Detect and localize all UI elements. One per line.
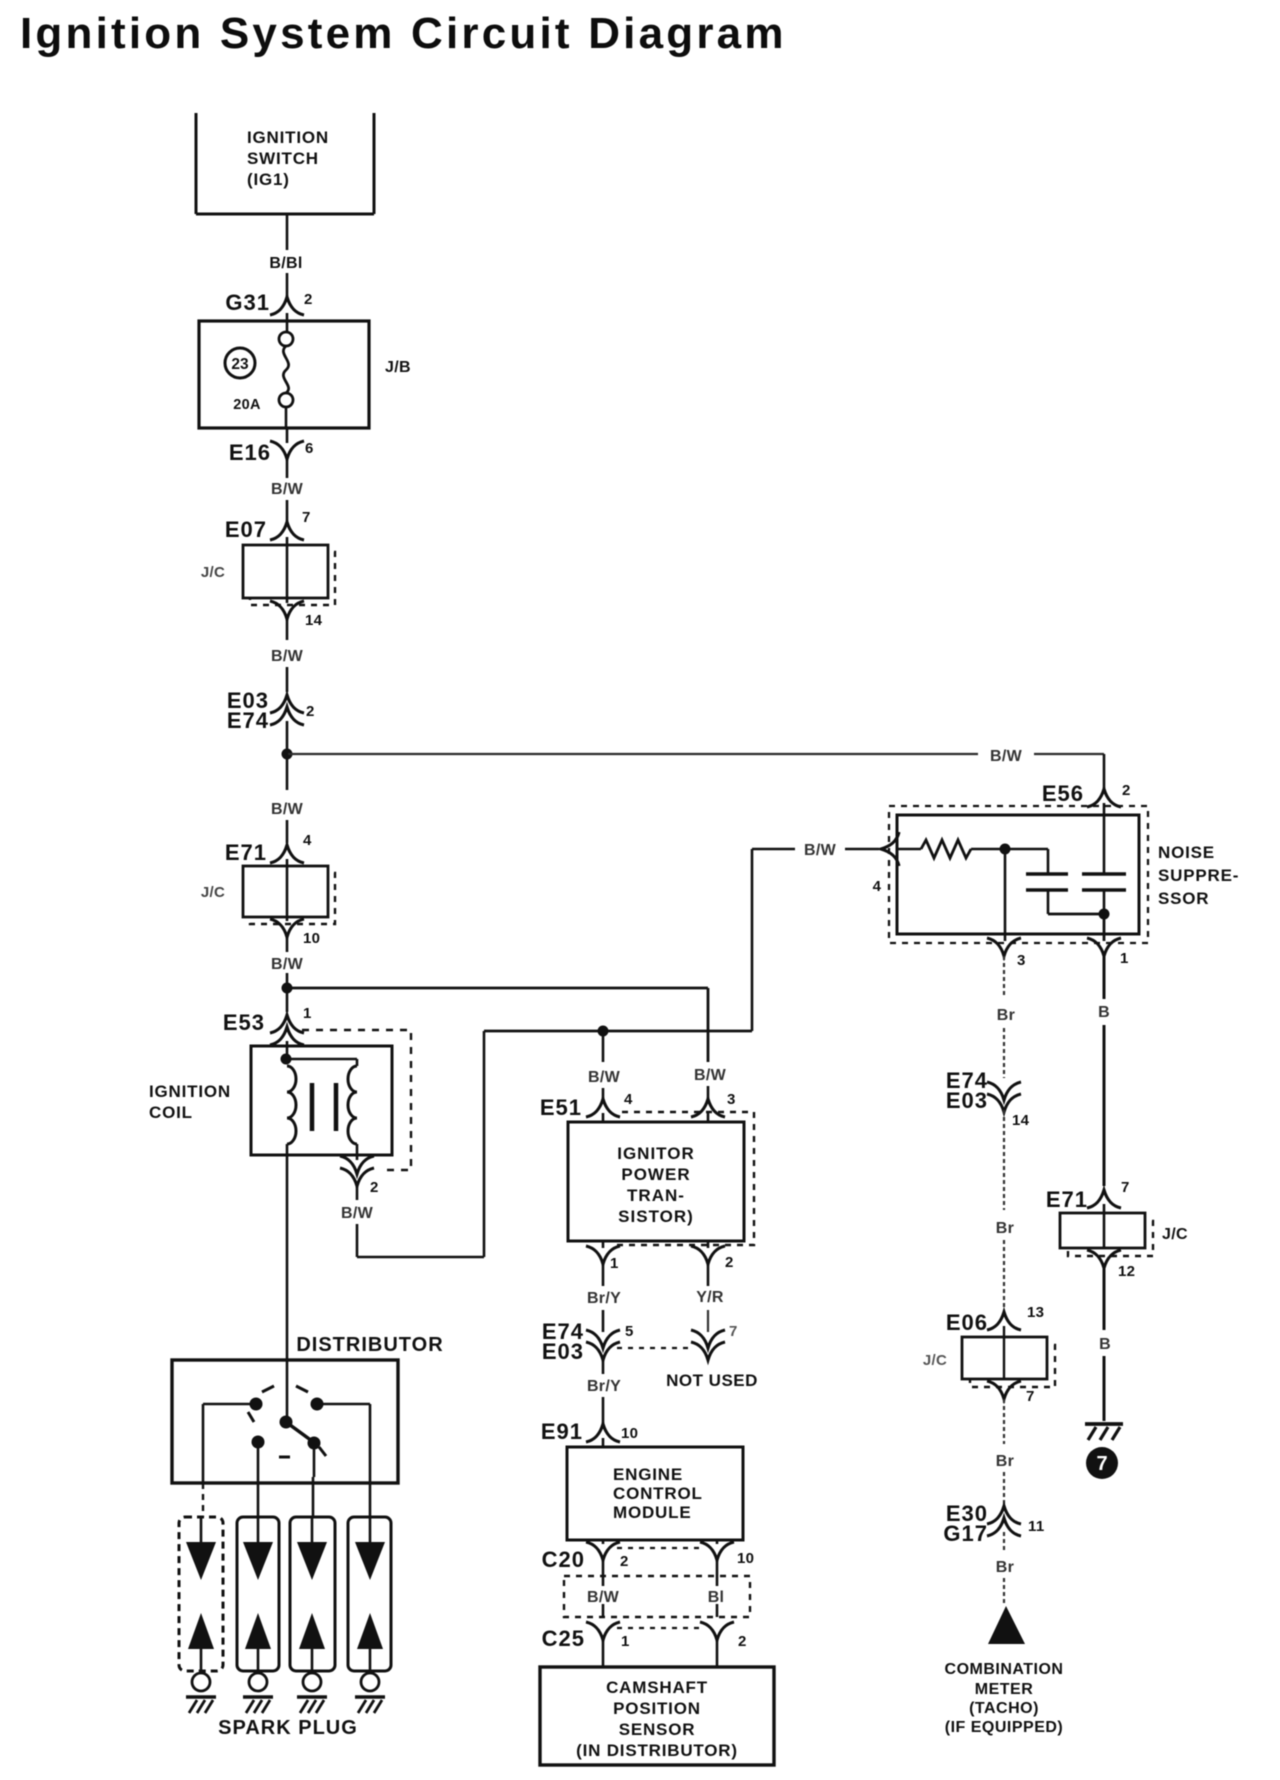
dashed link C20	[617, 1547, 703, 1549]
svg-text:B/W: B/W	[588, 1069, 621, 1086]
connector E07 pin 14	[270, 601, 323, 629]
connector E74/E03 pin 5	[542, 1319, 634, 1364]
wire label B/W	[271, 481, 304, 498]
svg-text:B/W: B/W	[271, 956, 304, 973]
wire (not used leg)	[707, 1310, 709, 1332]
svg-text:B/W: B/W	[990, 748, 1023, 765]
wire label B/Bl	[269, 255, 302, 272]
ignition coil box	[251, 1046, 392, 1155]
wire branch B/W to E56 (long horizontal)	[288, 753, 1104, 755]
node junction to ignitor	[282, 983, 293, 994]
wire pin1 leg	[1103, 914, 1106, 941]
wire	[603, 1560, 717, 1576]
engine control module label	[613, 1465, 703, 1522]
svg-text:(IN DISTRIBUTOR): (IN DISTRIBUTOR)	[576, 1741, 738, 1760]
svg-text:11: 11	[1028, 1518, 1044, 1535]
wire primary to distributor	[286, 1144, 289, 1416]
wire label B	[1094, 1001, 1114, 1021]
svg-text:E56: E56	[1042, 781, 1084, 806]
svg-text:20A: 20A	[233, 397, 261, 413]
svg-text:Br: Br	[996, 1559, 1014, 1576]
svg-text:E71: E71	[225, 840, 267, 865]
wire	[1003, 1028, 1005, 1078]
svg-text:TRAN-: TRAN-	[627, 1186, 685, 1205]
svg-text:2: 2	[306, 703, 315, 720]
wire	[1005, 849, 1048, 874]
spark plug 3	[290, 1517, 335, 1713]
connector C20 pins 2 and 10	[542, 1542, 755, 1572]
spark plug 2	[237, 1517, 279, 1713]
wire through J/C	[286, 537, 289, 598]
wire to E51 pin 4	[602, 1031, 605, 1100]
distributor contact upper-left	[250, 1398, 263, 1411]
distributor contact upper-right	[311, 1398, 324, 1411]
wire label Br/Y	[587, 1290, 621, 1307]
fuse element	[279, 332, 293, 428]
wire coil top link	[286, 1059, 357, 1066]
wire label Br	[996, 1559, 1014, 1576]
svg-text:IGNITION: IGNITION	[247, 128, 329, 147]
svg-text:ENGINE: ENGINE	[613, 1465, 683, 1484]
svg-text:10: 10	[737, 1550, 754, 1567]
dashed link between connectors	[617, 1347, 691, 1349]
connector E71 pin 4	[225, 832, 312, 865]
joint connector J/C box E71	[201, 866, 335, 924]
svg-text:SPARK PLUG: SPARK PLUG	[218, 1717, 358, 1739]
ground spark plug 1	[0, 0, 1, 1]
svg-text:2: 2	[304, 291, 313, 308]
wire	[752, 848, 879, 851]
svg-text:IGNITOR: IGNITOR	[617, 1144, 695, 1163]
svg-text:5: 5	[625, 1323, 634, 1340]
camshaft position sensor label	[576, 1678, 738, 1760]
svg-text:E71: E71	[1046, 1187, 1088, 1212]
svg-text:1: 1	[1120, 950, 1129, 967]
wire distributor to spark plug 3	[313, 1449, 314, 1517]
wire	[286, 313, 289, 332]
ignition coil label	[149, 1082, 231, 1122]
svg-text:SWITCH: SWITCH	[247, 149, 319, 168]
wire	[1003, 1399, 1005, 1444]
connector E06 pin 13	[946, 1304, 1044, 1335]
svg-text:POSITION: POSITION	[613, 1699, 701, 1718]
wire	[1103, 1356, 1106, 1421]
wire through J/C	[1103, 1204, 1106, 1248]
wire	[286, 973, 289, 1012]
svg-text:13: 13	[1027, 1304, 1044, 1321]
svg-text:Br: Br	[996, 1453, 1014, 1470]
combination meter arrow	[988, 1606, 1025, 1644]
wire to E51 pin 3	[707, 1086, 710, 1100]
spark plug 4	[348, 1517, 391, 1713]
svg-text:23: 23	[231, 356, 249, 373]
wire through J/C	[286, 859, 289, 917]
svg-text:J/C: J/C	[201, 884, 225, 901]
joint connector J/C box E07	[201, 545, 335, 605]
wire	[286, 721, 289, 754]
ignitor power transistor box	[568, 1122, 744, 1241]
wire down to E56 pin 2	[1103, 754, 1106, 789]
title	[20, 9, 787, 58]
wire B/W from noise suppressor pin 4	[484, 849, 752, 1031]
wire secondary to pin 2	[356, 1144, 359, 1160]
distributor rotor	[280, 1416, 321, 1450]
wire	[1103, 1025, 1106, 1186]
svg-text:Br/Y: Br/Y	[587, 1378, 621, 1395]
svg-text:G17: G17	[943, 1521, 988, 1546]
svg-text:E07: E07	[225, 517, 267, 542]
capacitor C-right in noise suppressor	[1082, 815, 1126, 914]
svg-text:B/W: B/W	[271, 648, 304, 665]
wire	[286, 428, 289, 478]
ground symbol	[1085, 1424, 1123, 1440]
svg-text:3: 3	[1017, 952, 1026, 969]
connector E51 pin 1	[586, 1246, 620, 1272]
wire	[1003, 1578, 1005, 1606]
noise suppressor dashed box	[889, 806, 1148, 943]
wire distributor to spark plug 4	[317, 1404, 370, 1517]
svg-text:DISTRIBUTOR: DISTRIBUTOR	[296, 1334, 443, 1356]
wire label Bl	[702, 1586, 730, 1606]
svg-text:6: 6	[305, 440, 314, 457]
combination meter label	[945, 1661, 1064, 1736]
svg-text:Br: Br	[997, 1007, 1015, 1024]
svg-text:J/C: J/C	[201, 564, 225, 581]
svg-text:E74: E74	[227, 708, 269, 733]
connector E07 pin 7	[225, 509, 311, 542]
connector G31 pin 2	[225, 290, 312, 315]
dashed link C25	[617, 1627, 703, 1629]
svg-text:1: 1	[610, 1255, 619, 1272]
svg-text:COIL: COIL	[149, 1103, 193, 1122]
svg-text:J/B: J/B	[385, 359, 411, 376]
wire	[286, 667, 289, 692]
svg-text:2: 2	[370, 1179, 379, 1196]
svg-text:2: 2	[620, 1553, 629, 1570]
svg-text:4: 4	[624, 1091, 633, 1108]
svg-text:2: 2	[725, 1254, 734, 1271]
ground spark plug 2	[0, 0, 1, 1]
svg-text:B/W: B/W	[804, 842, 837, 859]
wire	[286, 917, 289, 952]
svg-text:7: 7	[729, 1323, 738, 1340]
svg-text:NOISE: NOISE	[1158, 843, 1215, 862]
wire	[1048, 913, 1104, 916]
wire through dashed box	[603, 1576, 717, 1617]
connector E30/G17 pin 11	[943, 1501, 1044, 1546]
connector E51 pin 2	[691, 1246, 734, 1271]
connector E53 pin 1	[223, 1005, 312, 1045]
wire label B/W	[271, 801, 304, 818]
ground spark plug 3	[0, 0, 1, 1]
svg-text:B/W: B/W	[271, 481, 304, 498]
wire	[602, 1241, 605, 1286]
wire label B/W (top right)	[990, 748, 1023, 765]
svg-text:(IF EQUIPPED): (IF EQUIPPED)	[945, 1719, 1064, 1736]
wire branch to ignitor power transistor	[288, 988, 708, 1062]
wire through J/C	[1003, 1326, 1005, 1379]
svg-text:Y/R: Y/R	[696, 1289, 724, 1306]
connector pin 7 not used	[691, 1323, 738, 1360]
svg-text:1: 1	[621, 1633, 630, 1650]
ground spark plug 4	[0, 0, 1, 1]
connector E03/E74 pin 2	[227, 688, 315, 733]
connector E71 pin 10	[270, 919, 320, 947]
connector coil pin 2	[340, 1156, 379, 1196]
wire	[603, 1540, 717, 1544]
svg-text:(TACHO): (TACHO)	[969, 1700, 1039, 1717]
connector E56 pin 4	[873, 832, 899, 895]
svg-text:E51: E51	[540, 1095, 582, 1120]
svg-text:4: 4	[303, 832, 312, 849]
connector E56 pin 2	[1042, 781, 1131, 807]
svg-text:J/C: J/C	[923, 1352, 947, 1369]
NOT USED label	[666, 1371, 758, 1390]
svg-text:CAMSHAFT: CAMSHAFT	[606, 1678, 708, 1697]
wire distributor to spark plug 1	[203, 1404, 256, 1517]
wire	[1003, 1532, 1005, 1552]
svg-text:Ignition System Circuit Diagra: Ignition System Circuit Diagram	[20, 9, 787, 58]
svg-text:7: 7	[1026, 1388, 1035, 1405]
wire label Br	[996, 1453, 1014, 1470]
wire label Br	[996, 1220, 1014, 1237]
svg-text:SENSOR: SENSOR	[619, 1720, 696, 1739]
noise suppressor box	[897, 815, 1139, 934]
joint connector J/C box E71 right	[1060, 1213, 1188, 1256]
spark plug label	[218, 1717, 358, 1739]
svg-text:C20: C20	[542, 1547, 585, 1572]
svg-text:3: 3	[727, 1091, 736, 1108]
svg-text:E53: E53	[223, 1010, 265, 1035]
wire	[286, 1041, 289, 1059]
svg-text:1: 1	[303, 1005, 312, 1022]
connector E06 pin 7	[987, 1381, 1035, 1405]
svg-text:MODULE: MODULE	[613, 1503, 691, 1522]
capacitor C-left in noise suppressor	[1026, 874, 1068, 914]
svg-text:10: 10	[621, 1425, 638, 1442]
svg-text:Br/Y: Br/Y	[587, 1290, 621, 1307]
wire	[1003, 1472, 1005, 1505]
connector E51 pins 4 and 3	[540, 1091, 736, 1120]
ignition coil dashed enclosure	[302, 1030, 411, 1170]
ignitor dashed enclosure	[612, 1112, 754, 1245]
wire	[602, 1397, 605, 1424]
svg-text:Br: Br	[996, 1220, 1014, 1237]
wire	[602, 1358, 605, 1374]
distributor box	[172, 1360, 398, 1483]
joint connector J/C box E06	[923, 1337, 1055, 1387]
svg-text:10: 10	[303, 930, 320, 947]
spark plug 1	[179, 1517, 223, 1713]
node junction ignitor pin 4 feed	[598, 1026, 609, 1037]
svg-text:SSOR: SSOR	[1158, 889, 1209, 908]
svg-text:4: 4	[873, 878, 882, 895]
svg-text:POWER: POWER	[621, 1165, 690, 1184]
fuse 20A rating	[233, 397, 261, 413]
ignition coil secondary winding	[348, 1066, 357, 1144]
wire label B	[1099, 1336, 1111, 1353]
connector E71 pin 12	[1087, 1250, 1135, 1280]
wire pin3 leg	[1004, 849, 1007, 941]
wire label B/W	[581, 1586, 625, 1606]
wire label B/W (to pin 4)	[804, 842, 837, 859]
wire label B/W	[271, 648, 304, 665]
wire label B/W	[341, 1205, 374, 1222]
connector C25 pins 1 and 2	[542, 1622, 747, 1651]
connector E74/E03 pin 14	[946, 1068, 1030, 1129]
svg-text:(IG1): (IG1)	[247, 170, 290, 189]
wire label Br	[997, 1007, 1015, 1024]
svg-text:B/Bl: B/Bl	[269, 255, 302, 272]
svg-text:E03: E03	[542, 1339, 584, 1364]
svg-text:7: 7	[302, 509, 311, 526]
svg-text:COMBINATION: COMBINATION	[945, 1661, 1064, 1678]
wire	[286, 820, 289, 843]
node junction to noise suppressor	[282, 749, 293, 760]
noise suppressor label	[1158, 843, 1239, 908]
svg-text:B/W: B/W	[694, 1067, 727, 1084]
svg-text:E06: E06	[946, 1310, 988, 1335]
wire	[1003, 1110, 1005, 1210]
wire	[1003, 1240, 1005, 1308]
wire	[356, 1184, 359, 1200]
wire label B/W	[688, 1064, 732, 1084]
wire	[1003, 956, 1005, 996]
svg-text:12: 12	[1118, 1263, 1135, 1280]
wire	[602, 1438, 605, 1447]
svg-text:J/C: J/C	[1162, 1226, 1188, 1243]
svg-text:IGNITION: IGNITION	[149, 1082, 231, 1101]
wire	[603, 1640, 717, 1667]
fuse 23 circled label	[225, 348, 255, 378]
wire E51 pin connections	[603, 1113, 708, 1122]
svg-text:B/W: B/W	[341, 1205, 374, 1222]
ignitor power transistor label	[617, 1144, 695, 1226]
resistor in noise suppressor	[897, 840, 1000, 858]
distributor label	[296, 1334, 443, 1356]
wire label B/W	[271, 956, 304, 973]
wire	[286, 598, 289, 640]
wire label Y/R	[696, 1289, 724, 1306]
svg-text:E16: E16	[229, 440, 271, 465]
svg-text:E91: E91	[541, 1419, 583, 1444]
engine control module box	[567, 1447, 743, 1540]
wire	[602, 1310, 605, 1332]
wire	[1103, 1268, 1106, 1330]
node capacitor junction	[1099, 909, 1110, 920]
wire loop pin2 to ignitor feed	[357, 1031, 484, 1257]
svg-text:7: 7	[1121, 1179, 1130, 1196]
svg-text:SISTOR): SISTOR)	[618, 1207, 694, 1226]
ignition coil core	[312, 1083, 336, 1131]
svg-text:14: 14	[305, 612, 323, 629]
wire distributor to spark plug 2	[257, 1448, 260, 1517]
wire	[1103, 803, 1106, 815]
ignition coil primary winding	[287, 1066, 296, 1144]
wire	[286, 273, 289, 299]
node coil top junction	[281, 1054, 292, 1065]
svg-text:B/W: B/W	[587, 1589, 620, 1606]
connector E56 pin 3	[987, 938, 1026, 969]
wire ignition switch to G31	[286, 214, 289, 250]
distributor contact lower-left	[252, 1436, 265, 1449]
intermediate connector dashed box	[564, 1576, 750, 1617]
ignition switch box (open top)	[196, 113, 374, 214]
svg-text:G31: G31	[225, 290, 270, 315]
node resistor junction	[1000, 844, 1011, 855]
camshaft position sensor box	[540, 1667, 774, 1765]
svg-text:B: B	[1098, 1004, 1110, 1021]
svg-text:NOT USED: NOT USED	[666, 1371, 758, 1390]
junction block J/B box	[199, 321, 369, 428]
connector E16 pin 6	[229, 440, 314, 465]
wire	[286, 754, 289, 790]
ground reference 7	[1086, 1447, 1118, 1479]
svg-text:7: 7	[1096, 1453, 1107, 1475]
wire	[286, 500, 289, 521]
distributor tick marks	[248, 1386, 326, 1457]
svg-text:B/W: B/W	[271, 801, 304, 818]
svg-text:Bl: Bl	[708, 1589, 725, 1606]
connector E71 pin 7 (right)	[1046, 1179, 1130, 1212]
wire label B/W	[588, 1069, 621, 1086]
svg-text:C25: C25	[542, 1626, 585, 1651]
wire	[707, 1241, 710, 1286]
ignition switch label	[247, 128, 329, 189]
svg-text:2: 2	[1122, 782, 1131, 799]
svg-text:B: B	[1099, 1336, 1111, 1353]
wire	[1103, 956, 1106, 999]
wire label Br/Y	[587, 1378, 621, 1395]
connector E91 pin 10	[541, 1419, 638, 1444]
svg-text:2: 2	[738, 1633, 747, 1650]
svg-text:14: 14	[1012, 1112, 1030, 1129]
svg-text:METER: METER	[975, 1681, 1034, 1698]
svg-text:SUPPRE-: SUPPRE-	[1158, 866, 1239, 885]
J/B label	[385, 359, 411, 376]
svg-text:E03: E03	[946, 1088, 988, 1113]
svg-text:CONTROL: CONTROL	[613, 1484, 703, 1503]
connector E56 pin 1	[1087, 938, 1129, 967]
